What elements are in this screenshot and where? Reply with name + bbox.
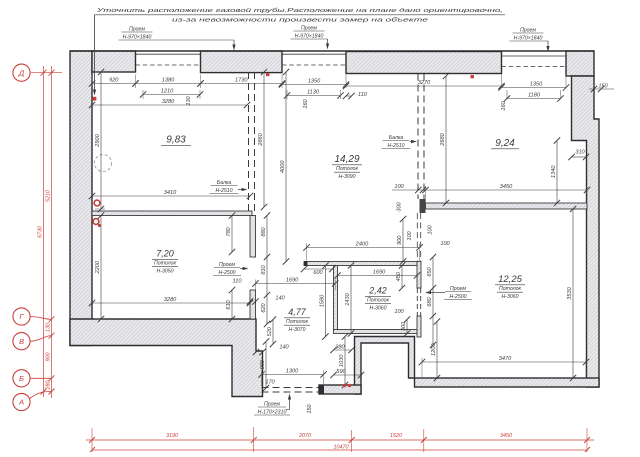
svg-text:Проем: Проем <box>520 28 536 34</box>
svg-text:Н-2500: Н-2500 <box>218 270 235 276</box>
wall C (9.24/12.25) <box>426 203 588 209</box>
dim 2900 <box>95 69 104 212</box>
svg-text:2,42: 2,42 <box>368 286 387 296</box>
dim 3530 <box>567 206 576 381</box>
svg-text:100: 100 <box>394 309 404 315</box>
svg-text:650: 650 <box>427 266 433 276</box>
svg-text:920: 920 <box>109 78 119 84</box>
dim col x232 <box>231 216 233 253</box>
svg-text:170: 170 <box>265 380 275 386</box>
svg-text:3450: 3450 <box>500 184 513 190</box>
svg-text:Потолок: Потолок <box>336 166 358 172</box>
window 2 <box>282 53 346 55</box>
svg-text:1430: 1430 <box>345 292 351 305</box>
dim 450 <box>396 262 405 291</box>
svg-text:1210: 1210 <box>161 89 174 95</box>
svg-text:610: 610 <box>226 299 232 309</box>
svg-text:Н-3050: Н-3050 <box>156 269 173 275</box>
svg-text:Балка: Балка <box>389 135 404 141</box>
gas pipe leader <box>94 15 96 93</box>
svg-text:600: 600 <box>313 270 323 276</box>
svg-text:3190: 3190 <box>166 433 178 439</box>
svg-text:3470: 3470 <box>499 356 512 362</box>
red dots bottom hall <box>343 384 346 387</box>
svg-text:620: 620 <box>261 302 267 312</box>
wall right outer <box>572 76 600 387</box>
wall B upper <box>250 216 256 258</box>
svg-text:3410: 3410 <box>164 190 177 196</box>
svg-text:780: 780 <box>226 226 232 236</box>
svg-text:680: 680 <box>427 296 433 306</box>
svg-text:140: 140 <box>279 345 289 351</box>
svg-text:1180: 1180 <box>528 93 541 99</box>
svg-text:1730: 1730 <box>235 78 248 84</box>
wall 2.42 bottom <box>334 330 420 334</box>
svg-text:из-за невозможности произвести: из-за невозможности произвести замер на … <box>172 18 429 24</box>
axis D <box>13 64 30 81</box>
dim col x264 lower <box>266 216 268 325</box>
wall bottom right wing <box>415 378 600 387</box>
wall E thin upper lines <box>416 213 418 262</box>
svg-text:100: 100 <box>428 224 434 234</box>
label room 2.42 <box>365 286 391 312</box>
svg-text:150: 150 <box>307 403 313 413</box>
red mark top wall 2 <box>471 75 474 78</box>
label room 7.20 <box>152 249 178 275</box>
svg-text:3280: 3280 <box>164 297 177 303</box>
dim 1350-w2 <box>279 79 349 88</box>
dim 590 <box>330 369 364 378</box>
dim 2680 <box>440 73 449 206</box>
extension lines <box>91 75 93 89</box>
dim 1210 <box>140 89 203 98</box>
wall notch (exterior recess) <box>355 337 415 395</box>
svg-text:140: 140 <box>275 296 285 302</box>
svg-text:Потолок: Потолок <box>367 297 389 303</box>
axis dim lines red <box>51 66 53 398</box>
svg-text:100: 100 <box>394 184 404 190</box>
dim 1300 <box>258 369 326 378</box>
svg-text:3530: 3530 <box>567 286 573 299</box>
svg-text:Н-970×1840: Н-970×1840 <box>514 35 543 41</box>
svg-text:Проем: Проем <box>219 262 235 268</box>
dim 520 <box>267 316 276 347</box>
label beam 1 <box>210 180 239 194</box>
wall top-right corner block <box>566 51 594 76</box>
dim 1430 <box>345 262 354 336</box>
svg-text:Н-970×1840: Н-970×1840 <box>123 34 152 40</box>
balcony opening dashed <box>262 387 320 389</box>
svg-text:300: 300 <box>401 321 407 331</box>
dim bottom red total <box>92 449 587 451</box>
svg-text:160: 160 <box>303 98 309 108</box>
svg-text:Н-2510: Н-2510 <box>387 143 404 149</box>
dim 1380 <box>132 78 203 87</box>
svg-text:6730: 6730 <box>38 226 44 238</box>
dim 2200 <box>95 212 104 322</box>
dim bottom red row <box>86 439 594 441</box>
wire top outer wall line <box>70 50 594 52</box>
svg-text:Балка: Балка <box>217 180 232 186</box>
wall bottom band small <box>319 385 361 394</box>
svg-text:Н-970×1840: Н-970×1840 <box>295 33 324 39</box>
dim 1730 <box>197 78 285 87</box>
dim 3410 <box>89 190 253 199</box>
svg-text:990: 990 <box>260 359 266 369</box>
svg-text:Д: Д <box>18 68 25 77</box>
svg-text:280: 280 <box>46 381 52 391</box>
svg-text:130: 130 <box>186 95 192 105</box>
wall top pier A <box>92 51 136 72</box>
svg-text:1520: 1520 <box>390 433 402 439</box>
svg-text:1350: 1350 <box>530 82 543 88</box>
svg-text:2680: 2680 <box>440 132 446 146</box>
svg-text:5210: 5210 <box>46 190 52 202</box>
wall E upper seg <box>417 262 421 289</box>
svg-text:160: 160 <box>501 100 507 110</box>
label window a <box>119 27 156 41</box>
svg-text:1580: 1580 <box>320 294 326 307</box>
svg-text:Н-3060: Н-3060 <box>501 294 518 300</box>
dim 3450 <box>422 184 590 193</box>
dim 3270 <box>343 80 505 89</box>
svg-text:1350: 1350 <box>308 79 321 85</box>
svg-text:Б: Б <box>19 374 24 383</box>
window 1 <box>136 53 201 55</box>
label beam 2 <box>382 135 411 149</box>
svg-text:1340: 1340 <box>551 165 557 178</box>
label door 1 <box>213 262 241 276</box>
wall A (9.83/7.20) <box>92 211 252 216</box>
svg-text:Н-2500: Н-2500 <box>449 294 466 300</box>
svg-text:14,29: 14,29 <box>334 154 359 165</box>
svg-text:2070: 2070 <box>298 433 311 439</box>
dim 4000 <box>280 69 289 265</box>
label room 12.25 <box>495 274 525 300</box>
red radiator symbol 2 <box>93 219 99 225</box>
wall bottom left wing <box>70 319 263 397</box>
svg-text:130: 130 <box>46 323 52 332</box>
svg-text:3270: 3270 <box>418 80 431 86</box>
svg-text:100: 100 <box>407 230 413 240</box>
dim 990 <box>260 338 269 391</box>
dim 2860 <box>258 69 267 210</box>
svg-text:100: 100 <box>440 241 450 247</box>
dim 1690-hall <box>252 278 338 287</box>
wall 2.42 left <box>334 266 338 330</box>
window 3 <box>502 55 567 57</box>
svg-text:520: 520 <box>267 326 273 336</box>
dim 310 <box>568 154 589 160</box>
svg-text:2200: 2200 <box>95 260 101 274</box>
dim 2400 <box>303 242 422 251</box>
svg-text:9,83: 9,83 <box>166 135 186 146</box>
wall B lower <box>250 290 256 319</box>
axis B <box>13 370 30 387</box>
wall T-stub <box>420 199 426 213</box>
label room 14.29 <box>332 154 362 180</box>
label room 9.83 <box>161 135 191 146</box>
svg-text:2860: 2860 <box>258 132 264 146</box>
svg-text:3280: 3280 <box>162 99 175 105</box>
red extension lines bottom <box>91 428 93 452</box>
axis A <box>13 393 30 410</box>
dim 1200 <box>431 318 440 381</box>
svg-text:1300: 1300 <box>286 369 299 375</box>
svg-text:310: 310 <box>575 150 585 156</box>
svg-text:1380: 1380 <box>162 78 175 84</box>
dim 3470 <box>419 356 589 365</box>
svg-text:А: А <box>18 398 24 407</box>
dim 300 <box>401 316 410 336</box>
label window c <box>510 28 547 42</box>
beam line 2 dashed <box>417 74 419 200</box>
label room 9.24 <box>491 138 519 149</box>
dim 3280-720 <box>89 297 253 306</box>
svg-text:7,20: 7,20 <box>156 249 174 259</box>
dim 900 <box>397 216 406 265</box>
dim 110 <box>343 93 355 99</box>
dim 920 <box>89 78 139 87</box>
dim 380 <box>330 345 354 354</box>
dim 1690-242 <box>334 270 420 279</box>
gas pipe point (red) <box>93 97 97 101</box>
dim 1350-w3 <box>498 82 569 91</box>
door opening wall E dashed <box>416 288 418 316</box>
dim 1180-w3 <box>504 93 564 102</box>
svg-text:4000: 4000 <box>280 160 286 173</box>
dim 1340 <box>551 137 560 206</box>
axis G <box>13 308 30 325</box>
wall left outer <box>70 51 92 346</box>
svg-text:Потолок: Потолок <box>154 260 176 266</box>
svg-text:Потолок: Потолок <box>499 286 521 292</box>
svg-text:4,77: 4,77 <box>288 307 307 317</box>
dim 1130-w2 <box>284 90 344 99</box>
svg-text:Проем: Проем <box>129 27 145 33</box>
svg-text:9,24: 9,24 <box>495 138 515 149</box>
svg-text:Проем: Проем <box>450 286 466 292</box>
wall D (hall top) <box>304 262 420 266</box>
svg-text:810: 810 <box>261 264 267 274</box>
svg-text:В: В <box>19 337 24 346</box>
svg-text:Проем: Проем <box>264 402 280 408</box>
wall top pier C <box>346 52 502 74</box>
label door 2 <box>444 286 472 300</box>
label window b <box>291 26 328 40</box>
svg-text:Н-3060: Н-3060 <box>369 306 386 312</box>
svg-text:Н-3070: Н-3070 <box>288 327 305 333</box>
svg-text:380: 380 <box>335 345 345 351</box>
wall top pier B <box>201 51 283 73</box>
svg-text:3450: 3450 <box>500 433 512 439</box>
svg-text:1130: 1130 <box>307 90 320 96</box>
label balcony door <box>254 402 290 416</box>
dashed circle (ceiling fixture) <box>95 155 112 172</box>
svg-text:1030: 1030 <box>339 354 345 367</box>
svg-text:Н-2510: Н-2510 <box>215 188 232 194</box>
svg-text:110: 110 <box>233 279 243 285</box>
svg-text:Уточнить расположение газовой: Уточнить расположение газовой трубы.Расп… <box>95 7 503 14</box>
dim 1030 <box>339 333 348 388</box>
dim 3280-top <box>89 99 250 108</box>
red radiator symbol 1 <box>94 200 100 206</box>
svg-text:900: 900 <box>46 353 52 362</box>
svg-text:2400: 2400 <box>355 242 369 248</box>
wall E lower seg <box>417 316 421 337</box>
dim 1580 <box>320 262 329 339</box>
svg-text:1690: 1690 <box>286 278 299 284</box>
svg-text:Проем: Проем <box>301 26 317 32</box>
svg-text:150: 150 <box>598 84 608 90</box>
svg-text:880: 880 <box>261 226 267 236</box>
svg-text:10470: 10470 <box>334 445 349 451</box>
axis leaders red <box>30 317 52 320</box>
svg-text:900: 900 <box>397 235 403 245</box>
svg-text:2900: 2900 <box>95 133 101 147</box>
dim 150 right <box>589 88 614 90</box>
svg-text:Н-170×2310: Н-170×2310 <box>258 409 287 415</box>
svg-text:590: 590 <box>336 369 346 375</box>
axis V <box>13 333 30 350</box>
svg-text:12,25: 12,25 <box>498 274 522 285</box>
svg-text:110: 110 <box>358 92 368 98</box>
label room 4.77 <box>284 307 310 333</box>
beam line 1 dashed <box>248 72 250 211</box>
svg-text:450: 450 <box>396 271 402 281</box>
dim 600 <box>301 266 336 272</box>
svg-text:Н-3090: Н-3090 <box>338 174 355 180</box>
svg-text:Потолок: Потолок <box>286 319 308 325</box>
svg-text:1690: 1690 <box>373 270 386 276</box>
dim col right of 2.42 <box>432 257 434 345</box>
svg-text:300: 300 <box>397 201 403 211</box>
red mark top wall 1 <box>266 73 269 76</box>
